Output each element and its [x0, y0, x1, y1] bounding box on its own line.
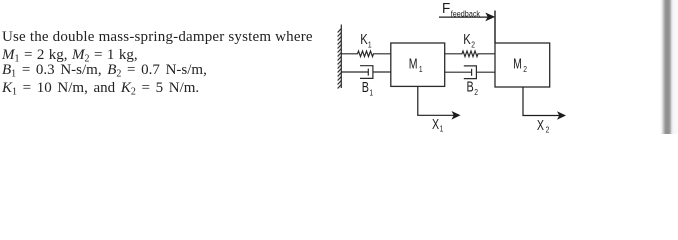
paragraph line 3 — [2, 63, 207, 78]
mass M1 — [391, 43, 445, 86]
mass M2 — [495, 43, 550, 87]
label X2 — [537, 117, 545, 133]
scrollbar — [660, 0, 678, 134]
label M1 — [409, 56, 418, 72]
displacement X2 arrow — [523, 87, 560, 116]
label F feedback — [442, 0, 451, 16]
label K2 — [463, 31, 471, 48]
svg-text:1: 1 — [369, 88, 373, 98]
svg-text:X: X — [537, 117, 545, 133]
svg-text:X: X — [432, 117, 440, 133]
svg-text:1: 1 — [419, 64, 423, 74]
spring K2 — [445, 51, 495, 57]
svg-text:M: M — [409, 56, 418, 72]
label M2 — [513, 56, 522, 72]
label B2 — [467, 78, 474, 95]
svg-text:F: F — [442, 0, 451, 16]
wall — [338, 25, 342, 89]
svg-text:B: B — [467, 78, 474, 95]
label X1 — [432, 117, 440, 133]
svg-text:M: M — [513, 56, 522, 72]
svg-text:2: 2 — [523, 64, 527, 74]
paragraph line 1 — [2, 30, 313, 45]
svg-text:1: 1 — [440, 124, 444, 134]
force F_feedback arrow — [439, 11, 495, 44]
damper B1 — [341, 66, 391, 79]
paragraph line 2 — [2, 48, 138, 63]
svg-text:B: B — [362, 78, 369, 95]
svg-text:1: 1 — [368, 40, 372, 50]
spring K1 — [341, 51, 391, 57]
svg-text:2: 2 — [546, 125, 550, 134]
svg-text:K: K — [360, 31, 368, 48]
damper B2 — [445, 66, 495, 79]
paragraph line 4 — [2, 81, 199, 96]
label K1 — [360, 31, 368, 48]
label B1 — [362, 78, 369, 95]
svg-text:K: K — [463, 31, 471, 48]
displacement X1 arrow — [418, 86, 455, 115]
svg-text:2: 2 — [474, 87, 478, 97]
svg-text:2: 2 — [471, 40, 475, 50]
svg-text:feedback: feedback — [451, 9, 480, 18]
